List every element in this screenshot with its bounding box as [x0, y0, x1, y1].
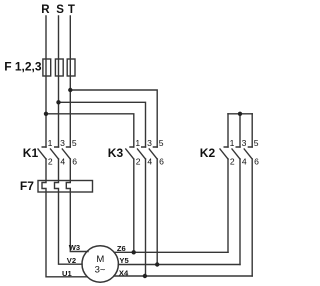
svg-text:K3: K3 — [108, 146, 124, 160]
svg-text:V2: V2 — [67, 256, 76, 265]
svg-text:3~: 3~ — [95, 264, 106, 275]
svg-text:W3: W3 — [69, 243, 80, 252]
svg-text:Y5: Y5 — [119, 256, 129, 265]
svg-text:1: 1 — [48, 138, 53, 148]
svg-text:2: 2 — [48, 157, 53, 167]
svg-text:6: 6 — [159, 157, 164, 167]
svg-text:3: 3 — [242, 138, 247, 148]
svg-text:R: R — [41, 4, 50, 16]
svg-text:6: 6 — [254, 157, 259, 167]
svg-text:6: 6 — [72, 157, 77, 167]
svg-text:2: 2 — [136, 157, 141, 167]
svg-text:Z6: Z6 — [117, 244, 126, 253]
svg-text:1: 1 — [135, 138, 140, 148]
svg-text:4: 4 — [60, 157, 65, 167]
svg-text:T: T — [68, 4, 75, 16]
svg-text:4: 4 — [147, 157, 152, 167]
svg-text:U1: U1 — [62, 269, 72, 278]
svg-text:S: S — [56, 4, 64, 16]
svg-text:5: 5 — [254, 138, 259, 148]
svg-text:F7: F7 — [20, 179, 34, 193]
svg-text:2: 2 — [230, 157, 235, 167]
svg-text:M: M — [96, 254, 104, 265]
svg-text:5: 5 — [159, 138, 164, 148]
svg-text:X4: X4 — [119, 268, 129, 277]
svg-text:3: 3 — [60, 138, 65, 148]
svg-text:4: 4 — [242, 157, 247, 167]
svg-text:F 1,2,3: F 1,2,3 — [4, 59, 42, 73]
svg-text:1: 1 — [230, 138, 235, 148]
svg-text:K1: K1 — [23, 146, 39, 160]
svg-text:5: 5 — [72, 138, 77, 148]
svg-text:3: 3 — [147, 138, 152, 148]
svg-text:K2: K2 — [200, 146, 216, 160]
